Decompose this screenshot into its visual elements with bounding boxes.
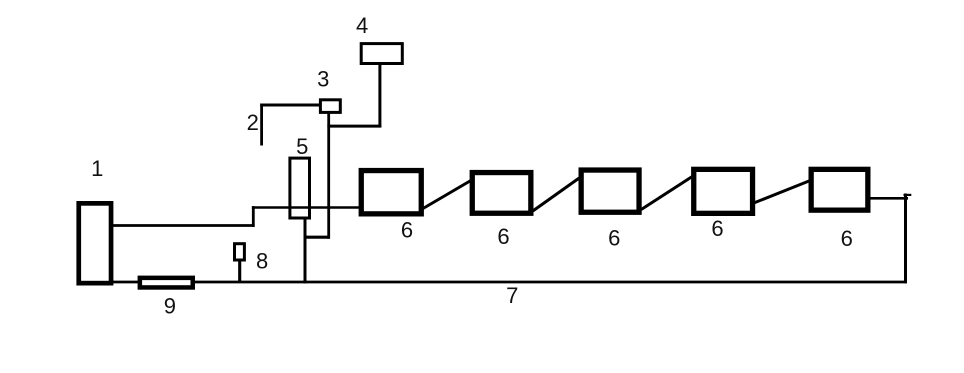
svg-text:1: 1: [91, 156, 103, 181]
svg-text:6: 6: [608, 226, 620, 251]
svg-text:8: 8: [256, 249, 268, 274]
svg-text:7: 7: [506, 283, 518, 308]
svg-text:6: 6: [401, 218, 413, 243]
svg-text:6: 6: [841, 226, 853, 251]
svg-text:3: 3: [317, 67, 329, 92]
svg-text:2: 2: [247, 110, 259, 135]
svg-text:6: 6: [711, 216, 723, 241]
svg-text:4: 4: [356, 13, 368, 38]
svg-text:9: 9: [164, 294, 176, 319]
svg-text:5: 5: [296, 134, 308, 159]
svg-text:6: 6: [497, 224, 509, 249]
